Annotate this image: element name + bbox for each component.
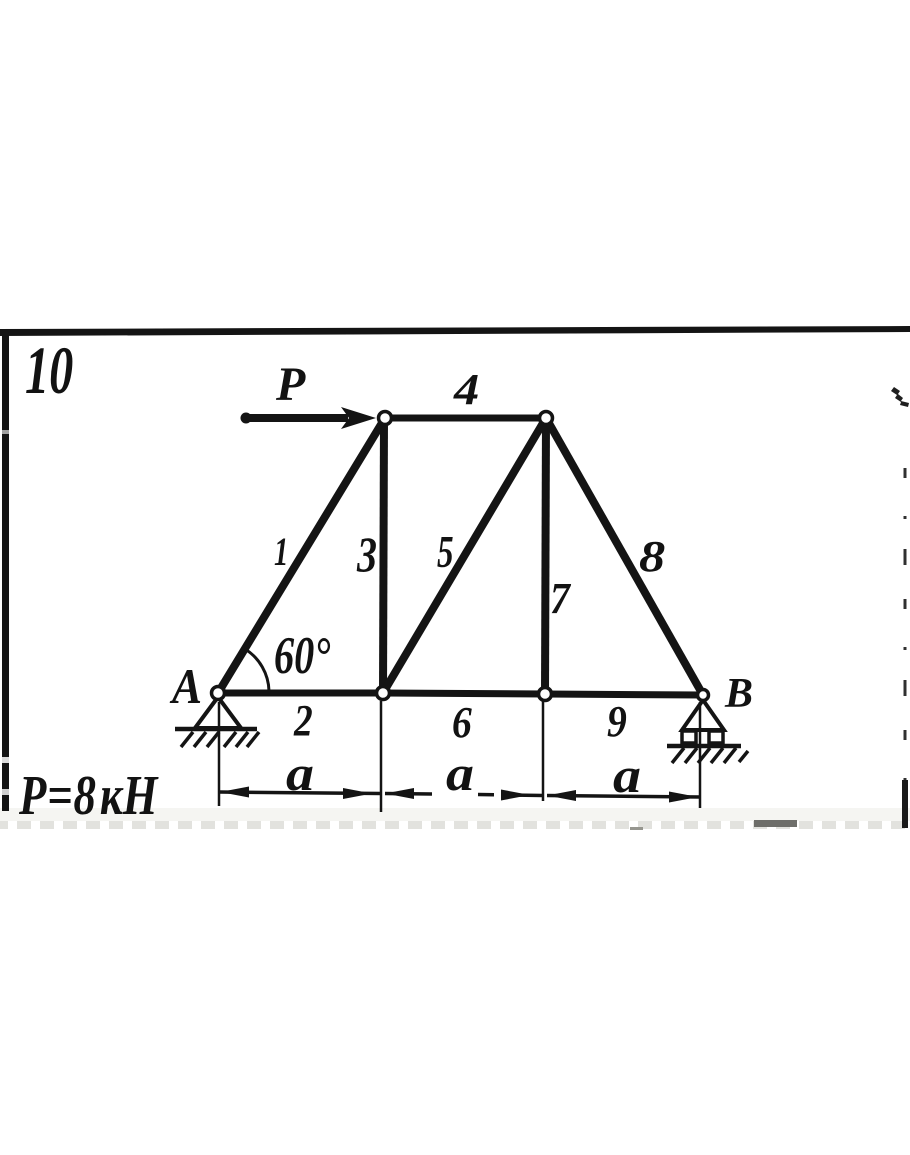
node A	[212, 687, 225, 700]
member 7 (vertical, top-right node to second bottom node)	[545, 418, 546, 694]
dimension extension line at first bottom node	[380, 701, 383, 812]
figure frame right border	[902, 468, 908, 828]
svg-text:a: a	[613, 749, 641, 804]
node bottom middle-left	[377, 687, 390, 700]
support B roller: triangle	[682, 700, 724, 730]
support B rollers	[682, 731, 696, 743]
member 4 (top chord)	[385, 415, 546, 422]
angle arc 60 degrees at A	[245, 649, 269, 691]
support A ground line	[175, 727, 257, 732]
node B	[698, 690, 709, 701]
svg-text:2: 2	[293, 696, 313, 744]
dimension arrow left of span 3	[547, 790, 576, 801]
member 3 (vertical, top-left node to first bottom node)	[383, 418, 384, 693]
svg-text:a: a	[446, 747, 474, 802]
svg-text:5: 5	[437, 526, 454, 578]
dimension arrow right of span 2	[501, 790, 530, 801]
member 5 (diagonal, first bottom node to top-right node)	[383, 418, 546, 693]
svg-text:a: a	[286, 747, 314, 802]
svg-text:B: B	[724, 671, 753, 717]
stray mark top right	[891, 387, 909, 407]
dimension line span A to first node	[219, 792, 381, 794]
figure frame top border	[0, 326, 910, 336]
svg-text:9: 9	[607, 698, 627, 746]
figure frame bottom edge band	[0, 808, 910, 830]
node top-right	[540, 412, 553, 425]
dimension extension line at second bottom node	[542, 701, 545, 801]
svg-text:A: A	[169, 660, 202, 715]
support B ground line	[667, 744, 741, 749]
dimension arrow right of span 3	[669, 792, 698, 803]
support B hatching	[672, 748, 748, 763]
svg-text:1: 1	[274, 529, 288, 574]
svg-text:60°: 60°	[274, 627, 331, 686]
svg-text:6: 6	[452, 699, 472, 747]
svg-text:8: 8	[639, 533, 665, 581]
svg-text:7: 7	[550, 575, 572, 623]
member 2 (A to first bottom node)	[218, 690, 383, 697]
svg-text:3: 3	[356, 527, 377, 582]
member 9 (bottom chord right)	[545, 694, 703, 695]
dimension arrow right of span 1	[343, 788, 372, 799]
support A pin: triangle	[195, 697, 241, 728]
member 6 (bottom chord middle)	[383, 693, 545, 694]
dimension arrow left of span 2	[385, 788, 414, 799]
node bottom middle-right	[539, 688, 552, 701]
svg-text:4: 4	[453, 366, 479, 414]
member 8 (diagonal, top-right node to B)	[546, 418, 703, 695]
dimension extension line at A	[218, 702, 221, 806]
dimension line span first to second node (broken)	[385, 794, 543, 796]
dimension line span second node to B	[547, 796, 700, 798]
support A hatching	[181, 732, 259, 747]
dimension arrow left of span 1	[220, 787, 249, 798]
figure frame left border	[2, 329, 9, 811]
svg-text:10: 10	[25, 332, 73, 408]
node top-left	[379, 412, 392, 425]
load arrow P	[241, 407, 377, 429]
svg-text:P=8кН: P=8кН	[18, 764, 159, 826]
dimension extension line at B	[699, 702, 702, 808]
member 1 (A to top-left node)	[218, 418, 385, 693]
svg-text:P: P	[275, 358, 306, 411]
